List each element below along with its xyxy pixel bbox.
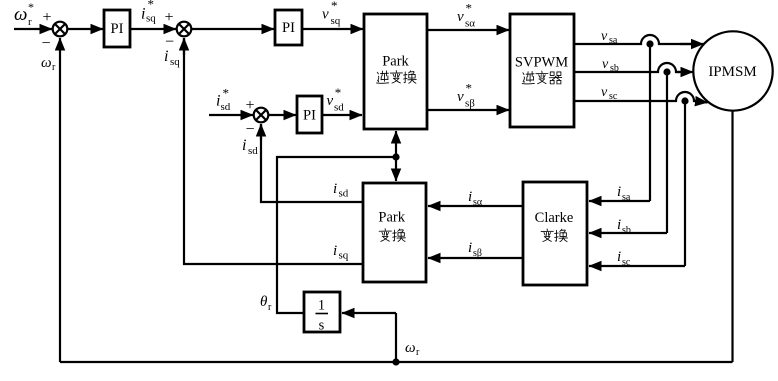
svg-text:ω: ω (41, 55, 52, 71)
svg-text:Clarke: Clarke (535, 210, 574, 226)
svg-text:v: v (457, 9, 464, 25)
svg-text:Park: Park (382, 54, 409, 70)
svg-text:−: − (245, 121, 254, 138)
svg-text:sα: sα (465, 18, 475, 30)
svg-text:IPMSM: IPMSM (708, 64, 756, 80)
svg-text:PI: PI (282, 20, 295, 36)
svg-text:sb: sb (610, 63, 619, 74)
svg-text:Park: Park (378, 210, 405, 226)
svg-text:i: i (617, 217, 621, 233)
svg-text:+: + (164, 9, 173, 26)
svg-text:v: v (601, 85, 608, 100)
svg-text:PI: PI (111, 21, 124, 37)
svg-text:*: * (148, 0, 155, 12)
svg-text:*: * (223, 86, 230, 101)
svg-text:i: i (333, 243, 337, 259)
svg-text:r: r (28, 16, 32, 28)
svg-text:i: i (141, 6, 145, 23)
svg-text:*: * (331, 0, 338, 13)
svg-text:sq: sq (339, 250, 349, 262)
svg-text:i: i (468, 189, 472, 205)
svg-text:r: r (416, 347, 420, 358)
svg-text:*: * (28, 0, 34, 14)
svg-text:sd: sd (334, 102, 344, 114)
svg-text:sb: sb (622, 225, 631, 236)
svg-text:sc: sc (622, 257, 631, 268)
svg-text:sc: sc (609, 91, 618, 102)
svg-text:sa: sa (609, 35, 618, 46)
svg-text:sβ: sβ (465, 98, 475, 110)
svg-text:sd: sd (221, 101, 231, 113)
svg-text:PI: PI (303, 107, 316, 123)
svg-text:ω: ω (14, 4, 27, 25)
svg-text:ω: ω (405, 340, 416, 356)
svg-text:i: i (242, 137, 246, 154)
svg-text:*: * (466, 1, 473, 16)
svg-text:v: v (601, 29, 608, 44)
svg-text:v: v (602, 57, 609, 72)
svg-text:r: r (268, 302, 272, 313)
svg-text:s: s (319, 318, 325, 334)
svg-text:i: i (617, 249, 621, 265)
svg-text:SVPWM: SVPWM (515, 55, 568, 71)
svg-text:r: r (52, 62, 56, 73)
svg-text:sβ: sβ (473, 248, 482, 259)
svg-text:sq: sq (170, 56, 180, 68)
svg-text:i: i (164, 48, 168, 65)
svg-text:sq: sq (331, 15, 341, 27)
svg-text:i: i (617, 184, 621, 200)
svg-text:sd: sd (339, 188, 349, 200)
svg-text:1: 1 (318, 298, 325, 314)
svg-text:v: v (322, 7, 329, 23)
svg-text:*: * (335, 85, 342, 100)
svg-text:−: − (41, 35, 50, 52)
svg-text:v: v (457, 89, 464, 105)
svg-text:sα: sα (473, 197, 483, 208)
svg-text:+: + (42, 9, 51, 26)
svg-text:sd: sd (248, 145, 258, 157)
svg-text:θ: θ (260, 294, 268, 310)
svg-text:sq: sq (146, 13, 156, 25)
svg-text:*: * (466, 81, 473, 96)
svg-text:v: v (327, 93, 334, 109)
svg-text:sa: sa (622, 192, 631, 203)
svg-text:+: + (245, 97, 254, 114)
svg-text:i: i (468, 240, 472, 256)
svg-text:i: i (333, 181, 337, 197)
